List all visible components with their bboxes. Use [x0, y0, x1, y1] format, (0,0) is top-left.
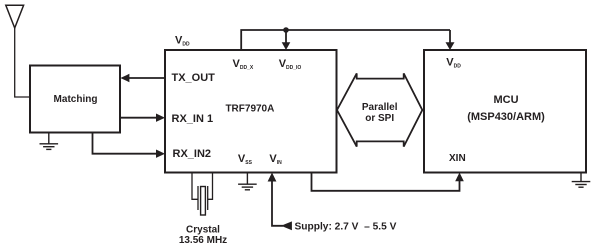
wire VDD rail — [241, 30, 450, 50]
MCU block — [424, 50, 586, 173]
wire antenna feed — [15, 28, 30, 97]
crystal label — [179, 224, 227, 246]
pin MCU VDD label — [446, 57, 461, 70]
wire SYS_CLK to XIN — [312, 173, 464, 191]
svg-text:VDD: VDD — [175, 34, 190, 47]
junction VDD rail — [283, 27, 289, 33]
pin XIN label — [449, 153, 466, 164]
wire TX_OUT to matching — [120, 74, 165, 82]
svg-text:(MSP430/ARM): (MSP430/ARM) — [467, 111, 545, 123]
net VDD label — [175, 34, 190, 47]
ground (VSS) — [238, 173, 257, 190]
wire matching to RX_IN 1 — [120, 114, 165, 122]
pin VDD_IO label — [279, 58, 302, 71]
pin VDD_X label — [233, 58, 254, 71]
wire VDD to MCU VDD pin — [446, 30, 455, 50]
svg-text:Supply: 2.7 V – 5.5 V: Supply: 2.7 V – 5.5 V — [295, 222, 397, 233]
svg-text:or SPI: or SPI — [365, 113, 394, 124]
svg-text:RX_IN 1: RX_IN 1 — [172, 113, 214, 125]
svg-text:VIN: VIN — [269, 153, 282, 166]
pin VIN label — [269, 153, 282, 166]
antenna — [6, 5, 24, 28]
TRF7970A block — [165, 50, 337, 173]
svg-text:VDD_IO: VDD_IO — [279, 58, 302, 71]
svg-text:Parallel: Parallel — [362, 102, 398, 113]
svg-text:RX_IN2: RX_IN2 — [173, 148, 212, 160]
pin RX_IN 1 — [172, 113, 214, 125]
pin VSS label — [238, 153, 253, 166]
wire matching to RX_IN2 — [93, 133, 166, 158]
svg-text:VDD_X: VDD_X — [233, 58, 254, 71]
crystal X1 — [192, 173, 213, 216]
svg-text:Matching: Matching — [54, 94, 98, 105]
wire VDD to VDD_IO pin — [282, 30, 291, 50]
ground (MCU) — [572, 173, 591, 188]
svg-text:TRF7970A: TRF7970A — [225, 104, 274, 115]
svg-text:MCU: MCU — [493, 94, 518, 106]
svg-text:TX_OUT: TX_OUT — [172, 72, 216, 84]
svg-text:13.56 MHz: 13.56 MHz — [179, 235, 227, 246]
svg-text:Crystal: Crystal — [186, 224, 220, 235]
supply arrowhead — [281, 221, 292, 230]
bus parallel or SPI double arrow — [337, 73, 422, 146]
ground (matching) — [40, 133, 59, 150]
pin RX_IN2 — [173, 148, 212, 160]
pin TX_OUT — [172, 72, 216, 84]
matching network block — [30, 66, 120, 133]
svg-text:XIN: XIN — [449, 153, 466, 164]
svg-text:VSS: VSS — [238, 153, 253, 166]
wire supply to VIN — [268, 173, 283, 226]
svg-text:VDD: VDD — [446, 57, 461, 70]
supply label — [295, 222, 397, 233]
